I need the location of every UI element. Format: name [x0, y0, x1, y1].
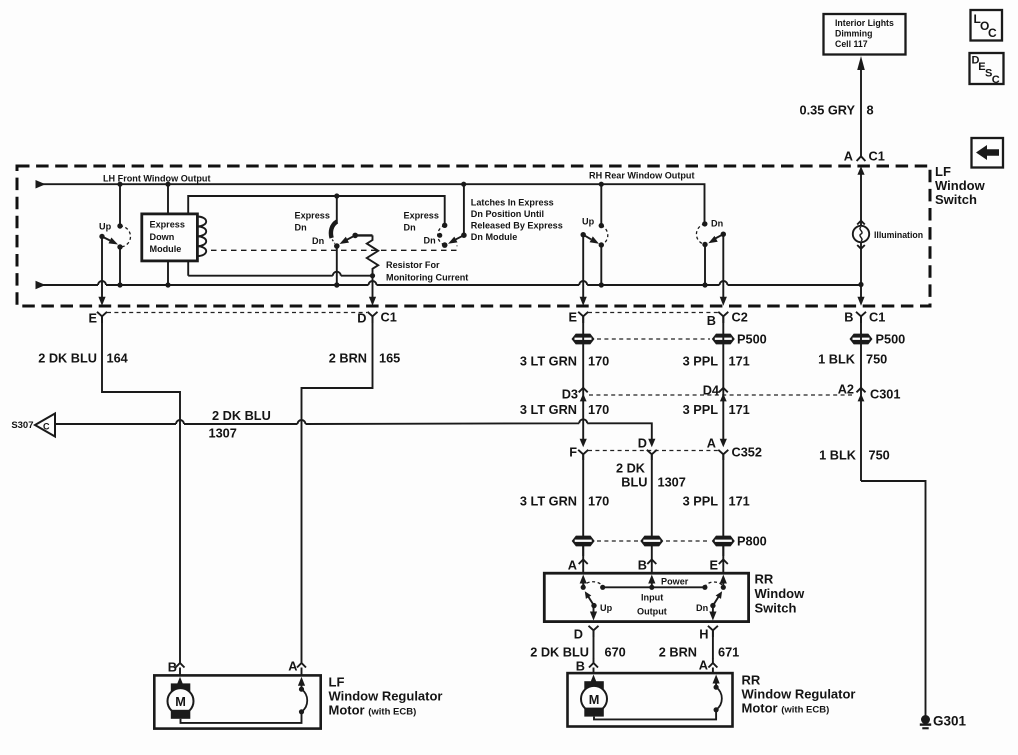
svg-text:Monitoring Current: Monitoring Current	[386, 273, 468, 283]
svg-text:A: A	[288, 659, 297, 674]
svg-text:Dn: Dn	[404, 223, 416, 233]
svg-text:LF: LF	[329, 675, 345, 690]
svg-text:RR: RR	[755, 572, 774, 587]
svg-text:Interior Lights: Interior Lights	[835, 18, 894, 28]
svg-text:Switch: Switch	[935, 192, 977, 207]
connector pin B C1 right	[844, 310, 885, 325]
switch Express Dn 1	[295, 196, 359, 249]
connector pin D4 C301	[703, 383, 728, 402]
switch Up (LF window)	[99, 184, 131, 285]
svg-text:Dn: Dn	[696, 603, 708, 613]
wire 1 BLK 750 upper	[818, 316, 887, 481]
svg-text:750: 750	[869, 448, 890, 463]
link P500	[597, 338, 710, 340]
svg-text:Dn: Dn	[424, 236, 436, 246]
wire top output line	[36, 180, 705, 224]
connector pin B C2	[707, 310, 748, 329]
svg-text:171: 171	[729, 354, 750, 369]
grommet P800 right	[712, 534, 767, 549]
svg-text:B: B	[844, 310, 853, 325]
connector C352 link	[588, 450, 719, 452]
svg-text:750: 750	[866, 352, 887, 367]
RR switch power input wire A	[580, 575, 587, 590]
svg-text:671: 671	[718, 645, 739, 660]
svg-text:E: E	[88, 311, 97, 326]
wire into RR switch B	[651, 546, 653, 573]
link P800	[597, 540, 710, 542]
svg-text:Output: Output	[637, 607, 667, 617]
svg-text:Dimming: Dimming	[835, 29, 872, 39]
svg-text:Cell 117: Cell 117	[835, 39, 868, 49]
wire RH Dn contact to pin B	[720, 234, 727, 306]
connector pin D3 C301	[562, 387, 588, 402]
svg-text:Window: Window	[755, 586, 806, 601]
RR Window Regulator Motor box	[568, 673, 856, 727]
RR Window Switch box	[544, 572, 805, 622]
LF Window Switch dashed box	[17, 166, 930, 306]
connector pin A RR motor	[699, 658, 718, 674]
wire LF Up pole to pin E	[98, 237, 105, 306]
svg-text:Power: Power	[661, 577, 689, 587]
svg-text:Express: Express	[150, 220, 185, 230]
coil of express down module	[197, 217, 206, 257]
svg-text:2 BRN: 2 BRN	[329, 351, 367, 366]
svg-text:P500: P500	[876, 332, 906, 347]
wire 3 LT GRN 170 mid label	[520, 402, 609, 417]
svg-text:B: B	[576, 659, 585, 674]
svg-text:Switch: Switch	[755, 601, 797, 616]
svg-text:0.35 GRY: 0.35 GRY	[799, 103, 855, 118]
wire RR Dn pole to pin H	[709, 606, 716, 621]
svg-text:3 LT GRN: 3 LT GRN	[520, 354, 577, 369]
wire 2 DK BLU 670	[530, 630, 626, 659]
svg-text:M: M	[589, 692, 600, 707]
svg-text:1307: 1307	[209, 426, 237, 441]
switch Express Dn 2	[404, 184, 467, 248]
svg-text:Latches In Express: Latches In Express	[471, 198, 554, 208]
svg-text:Module: Module	[150, 244, 182, 254]
svg-text:E: E	[568, 310, 577, 325]
svg-text:P800: P800	[737, 534, 767, 549]
svg-text:Motor (with ECB): Motor (with ECB)	[742, 701, 830, 716]
svg-text:BLU: BLU	[621, 475, 647, 490]
svg-text:A: A	[707, 436, 716, 451]
connector pin F C352	[569, 439, 588, 460]
wire module top	[167, 184, 169, 214]
svg-text:RH Rear Window Output: RH Rear Window Output	[589, 171, 695, 181]
switch Dn (RR window)	[696, 591, 722, 613]
svg-text:D: D	[638, 436, 647, 451]
svg-text:B: B	[707, 313, 716, 328]
svg-text:Express: Express	[295, 211, 330, 221]
svg-text:Express: Express	[404, 211, 439, 221]
grommet P500 right	[850, 332, 906, 347]
svg-text:2 DK BLU: 2 DK BLU	[212, 408, 271, 423]
svg-text:8: 8	[867, 103, 874, 118]
svg-text:2 DK BLU: 2 DK BLU	[38, 351, 97, 366]
svg-text:D4: D4	[703, 383, 720, 398]
connector link line C2	[588, 312, 718, 314]
Express Down Module	[142, 214, 198, 261]
svg-text:A2: A2	[838, 382, 854, 397]
grommet P500 left	[572, 334, 595, 345]
wire LF motor A jog	[288, 658, 306, 675]
label LF Window Switch	[935, 164, 986, 207]
splice S307	[11, 414, 55, 437]
svg-text:3 LT GRN: 3 LT GRN	[520, 402, 577, 417]
wire into RR switch E	[722, 546, 724, 573]
svg-text:D3: D3	[562, 387, 578, 402]
svg-text:C1: C1	[381, 310, 397, 325]
svg-text:2 DK BLU: 2 DK BLU	[530, 645, 589, 660]
svg-text:Up: Up	[600, 603, 613, 613]
switch Dn (RH rear window)	[696, 219, 726, 286]
svg-text:1307: 1307	[658, 475, 686, 490]
wire 3 LT GRN 170 upper	[520, 316, 609, 444]
svg-text:A: A	[568, 558, 577, 573]
connector C1 pin A at top of LF window switch	[844, 149, 885, 222]
wire RH Up pole to pin E	[580, 235, 587, 306]
wire 0.35 GRY 8 to interior lights	[799, 56, 873, 156]
svg-text:G301: G301	[933, 714, 967, 729]
svg-text:RR: RR	[742, 673, 761, 688]
svg-text:1 BLK: 1 BLK	[818, 352, 856, 367]
wire 2 BRN 671	[659, 630, 740, 659]
circuit breaker ECB (LF)	[298, 677, 307, 715]
wire RR Up pole to pin D	[590, 606, 597, 621]
svg-text:171: 171	[729, 494, 750, 509]
connector pin A C352	[707, 436, 762, 461]
svg-text:3 LT GRN: 3 LT GRN	[520, 494, 577, 509]
wire 3 PPL 171 upper	[683, 316, 750, 444]
svg-text:Dn: Dn	[312, 236, 324, 246]
switch Up (RR window)	[585, 591, 613, 613]
svg-text:2 DK: 2 DK	[616, 461, 646, 476]
Interior Lights Dimming Cell 117 box	[824, 14, 906, 55]
svg-text:164: 164	[107, 351, 129, 366]
connector pin E RR switch	[709, 558, 727, 573]
svg-text:Dn Position Until: Dn Position Until	[471, 209, 544, 219]
wire 1 BLK 750 to ground	[819, 448, 925, 717]
svg-text:Input: Input	[641, 593, 663, 603]
reference box DESC	[970, 53, 1004, 86]
connector pin E (C2)	[568, 310, 588, 325]
ground G301	[920, 714, 967, 730]
wire power bus inside RR switch	[583, 582, 723, 617]
node bottom bus junctions	[117, 282, 863, 288]
wire 3 PPL 171 mid label	[683, 402, 750, 417]
svg-text:Window Regulator: Window Regulator	[742, 687, 856, 702]
note latches in express	[471, 198, 563, 243]
svg-text:C: C	[988, 26, 997, 40]
svg-text:Resistor For: Resistor For	[386, 260, 440, 270]
svg-text:Dn: Dn	[711, 219, 723, 229]
connector C301 link	[589, 394, 855, 396]
svg-text:1 BLK: 1 BLK	[819, 448, 857, 463]
svg-text:C301: C301	[870, 387, 900, 402]
grommet P800 left	[572, 536, 595, 547]
svg-text:Released By Express: Released By Express	[471, 221, 563, 231]
svg-text:H: H	[699, 627, 708, 642]
svg-text:3 PPL: 3 PPL	[683, 494, 719, 509]
wire lamp to pin B C1	[857, 285, 864, 306]
RR switch power input wire B	[648, 575, 689, 588]
connector pin B RR switch	[638, 558, 657, 573]
svg-text:Dn: Dn	[295, 223, 307, 233]
svg-text:Window Regulator: Window Regulator	[329, 689, 443, 704]
svg-text:670: 670	[605, 645, 626, 660]
svg-text:3 PPL: 3 PPL	[683, 402, 719, 417]
node top line junctions	[117, 182, 604, 187]
svg-text:Window: Window	[935, 178, 986, 193]
wire resistor to pin D	[369, 276, 376, 306]
LF Window Regulator Motor box	[154, 675, 442, 729]
grommet P500 middle	[712, 332, 767, 347]
svg-text:Up: Up	[582, 217, 595, 227]
wire into RR switch A	[582, 546, 584, 573]
motor M (LF)	[168, 677, 302, 723]
svg-text:C: C	[43, 422, 50, 432]
svg-text:C2: C2	[732, 310, 748, 325]
svg-text:S307: S307	[11, 420, 33, 431]
wire 3 LT GRN 170 lower	[520, 454, 609, 556]
svg-text:Down: Down	[150, 232, 175, 242]
connector pin D C352	[638, 436, 657, 461]
RR switch power input wire E	[720, 575, 727, 590]
connector pin B RR motor	[576, 658, 598, 674]
connector pin A2 C301	[838, 382, 901, 402]
connector pin H below RR switch	[699, 626, 718, 642]
svg-text:P500: P500	[737, 332, 767, 347]
svg-text:165: 165	[379, 351, 400, 366]
svg-text:B: B	[638, 558, 647, 573]
svg-text:C352: C352	[732, 445, 762, 460]
svg-text:Illumination: Illumination	[874, 230, 923, 240]
wire bottom bus line	[36, 281, 862, 290]
connector pin A RR switch	[568, 558, 588, 573]
svg-text:170: 170	[588, 402, 609, 417]
circuit breaker ECB (RR)	[713, 675, 722, 713]
svg-text:M: M	[175, 694, 186, 709]
mechanical linkage dashed line	[211, 246, 457, 251]
svg-text:2 BRN: 2 BRN	[659, 645, 697, 660]
grommet P800 middle	[640, 536, 663, 547]
svg-text:170: 170	[588, 494, 609, 509]
svg-text:Motor (with ECB): Motor (with ECB)	[329, 703, 417, 718]
svg-text:Dn Module: Dn Module	[471, 232, 517, 242]
wire 2 BRN 165 (pin D to LF motor A)	[302, 316, 401, 658]
svg-text:A: A	[699, 658, 708, 673]
wire module bottom	[167, 261, 169, 285]
wire inner loop	[188, 193, 445, 275]
wire 2 DK BLU 1307 lower	[616, 454, 686, 536]
resistor for monitoring current	[355, 235, 468, 282]
lamp Illumination	[853, 221, 923, 285]
svg-text:170: 170	[588, 354, 609, 369]
wire 2 DK BLU 1307 horizontal	[55, 408, 652, 441]
connector pin E (LF C1)	[88, 311, 107, 326]
svg-text:C1: C1	[869, 310, 885, 325]
svg-text:Up: Up	[99, 222, 112, 232]
wire switch1 pole to bus	[336, 246, 338, 285]
reference box LOC	[971, 10, 1003, 41]
wire 3 PPL 171 lower	[683, 454, 750, 556]
svg-text:D: D	[357, 311, 366, 326]
svg-text:D: D	[574, 627, 583, 642]
connector pin D below RR switch	[574, 626, 599, 642]
svg-text:C: C	[992, 74, 1000, 86]
reference box back-arrow	[972, 138, 1004, 168]
svg-text:F: F	[569, 445, 577, 460]
svg-text:A: A	[844, 149, 853, 164]
svg-text:C1: C1	[869, 149, 885, 164]
svg-text:E: E	[709, 558, 718, 573]
svg-text:3 PPL: 3 PPL	[683, 354, 719, 369]
svg-text:LF: LF	[935, 164, 951, 179]
connector link line C1 left	[107, 312, 367, 314]
connector pin D C1	[357, 310, 397, 326]
switch Up (RH rear window)	[581, 184, 608, 285]
svg-text:171: 171	[729, 402, 750, 417]
wire LF motor B jog	[168, 658, 185, 675]
wire 2 DK BLU 164 (pin E to LF motor B)	[38, 316, 180, 658]
motor M (RR)	[581, 675, 716, 720]
